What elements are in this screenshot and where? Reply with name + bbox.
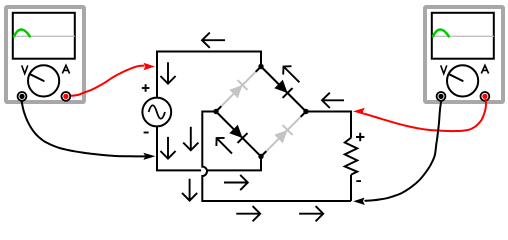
meter M2 black terminal (437, 92, 446, 101)
meter M1 label A (62, 65, 69, 73)
multimeter M1 (left meter) (6, 7, 84, 102)
meter M1 pointer (30, 74, 44, 81)
wire: bridge left node down with hop-over to bottom rail (202, 112, 351, 202)
wire: source bottom down and right to hop (157, 127, 201, 171)
test lead: M2 red lead to resistor top (353, 99, 486, 131)
label + at source (142, 84, 150, 92)
electron flow arrow: left wire below source, down (160, 137, 175, 159)
node: bridge bottom junction (258, 154, 263, 159)
bridge side: gray wire left node to top node (216, 67, 261, 112)
meter M2 label A (481, 65, 488, 73)
diode D3 (conducting) bottom-left (229, 124, 248, 143)
bridge side: gray wire bottom node to right node (261, 112, 306, 157)
test lead: M2 black lead to resistor bottom (353, 101, 441, 206)
meter M2 dial (447, 65, 478, 96)
electron flow arrow: bottom node feed wire, rightward (224, 175, 248, 190)
bridge side: wire top node to right node (261, 67, 306, 112)
wire: source top to bridge top node (157, 52, 261, 98)
test lead: M1 black lead to source bottom wire (22, 101, 156, 160)
electron flow arrow: bottom rail left, rightward (236, 206, 260, 221)
meter M1 red terminal (62, 92, 71, 101)
meter M1 label V (22, 65, 28, 73)
test lead: M1 red lead to source top wire (71, 63, 155, 96)
meter M2 screen axis line (433, 35, 494, 37)
resistor R1 (345, 138, 357, 175)
bridge side: wire left node to bottom node (216, 112, 261, 157)
diode D1 (off, gray) top-left (229, 80, 248, 99)
diode D2 (conducting) top-right (274, 79, 293, 98)
label + at resistor (356, 133, 364, 141)
electron flow arrow: below hop, down (182, 179, 197, 201)
label - at source (144, 132, 149, 134)
meter M1 frame (6, 7, 84, 102)
wire stub at top node (top-left side) (256, 67, 261, 72)
label - at resistor (356, 180, 361, 182)
meter M2 frame (425, 7, 503, 102)
wire stub at left node (top-left side) (216, 106, 221, 111)
wire: hop to bridge bottom node (208, 157, 262, 171)
electron flow arrow: top wire, leftward (202, 33, 225, 48)
meter M2 pointer (449, 74, 463, 81)
meter M1 screen axis line (14, 35, 75, 37)
multimeter M2 (right meter) (425, 7, 503, 102)
wire: bridge right node to resistor top (306, 112, 351, 138)
node: bridge left junction (213, 109, 218, 114)
meter M2 label V (441, 65, 447, 73)
electron flow arrow: left-node branch wire, down (183, 127, 198, 151)
meter M2 screen (432, 13, 494, 59)
electron flow arrow: bottom rail right, rightward (299, 206, 323, 221)
meter M1 screen (13, 13, 75, 59)
wire stub at right node (bottom-right side) (301, 112, 306, 117)
diode D4 (off, gray) bottom-right (274, 125, 293, 144)
meter M1 dial (28, 65, 59, 96)
electron flow arrow: through D3, up-left (216, 138, 232, 154)
electron flow arrow: resistor top wire, leftward (322, 93, 344, 108)
meter M1 black terminal (18, 92, 27, 101)
meter M1 green trace (14, 30, 30, 37)
node: bridge right junction (303, 109, 308, 114)
node: bridge top junction (258, 64, 263, 69)
AC source V1 (142, 98, 171, 127)
meter M2 green trace (433, 30, 449, 37)
AC source sine symbol (149, 105, 165, 119)
wire stub at bottom node (bottom-right side) (261, 151, 266, 156)
wire: resistor bottom to bottom rail (350, 175, 352, 202)
electron flow arrow: through D2, up-left (283, 66, 299, 82)
meter M2 red terminal (481, 92, 490, 101)
electron flow arrow: left wire down into source + (160, 62, 175, 83)
